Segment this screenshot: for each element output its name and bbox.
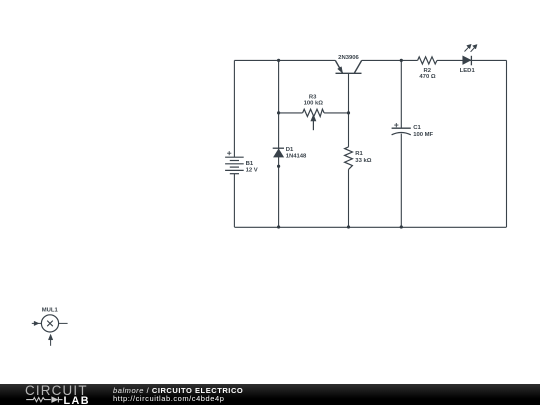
svg-text:R1: R1 <box>355 151 363 157</box>
svg-text:100 kΩ: 100 kΩ <box>304 100 324 106</box>
label 2N3906 <box>338 55 359 61</box>
svg-text:D1: D1 <box>286 147 294 153</box>
svg-text:470 Ω: 470 Ω <box>419 74 435 80</box>
svg-text:MUL1: MUL1 <box>42 308 59 314</box>
wire R1 top lead <box>348 113 350 147</box>
label R3 <box>309 95 317 101</box>
wire C1 bottom lead <box>400 134 402 227</box>
footer bar <box>0 384 540 405</box>
wire R3 right lead <box>324 112 348 114</box>
multiplier MUL1 <box>32 315 68 346</box>
wire Q1 base lead <box>348 73 350 113</box>
node dot D1 anode <box>277 165 280 168</box>
label 470 Ω <box>419 74 435 80</box>
label 33 kΩ <box>355 158 371 164</box>
CircuitLab logo <box>0 384 110 405</box>
transistor Q1 2N3906 <box>335 60 361 73</box>
resistor R1 <box>345 147 353 170</box>
capacitor C1 <box>392 123 411 135</box>
potentiometer R3 <box>303 109 325 130</box>
wire top-right (Q1 collector to R2) <box>362 59 418 61</box>
wire left vertical (top wire down to B1 +) <box>233 60 235 157</box>
label B1 <box>246 161 254 167</box>
svg-text:LED1: LED1 <box>460 68 476 74</box>
LED LED1 <box>463 44 477 65</box>
svg-text:2N3906: 2N3906 <box>338 55 359 61</box>
wire B1 - to bottom rail <box>233 174 235 227</box>
label 100 MF <box>413 132 433 138</box>
svg-text:33 kΩ: 33 kΩ <box>355 158 371 164</box>
node dot C1 top <box>400 59 403 62</box>
diode D1 1N4148 <box>273 148 284 157</box>
node dot R3 left <box>277 111 280 114</box>
node dot D1 bottom <box>277 225 280 228</box>
label D1 <box>286 147 294 153</box>
svg-text:12 V: 12 V <box>246 168 258 174</box>
label LED1 <box>460 68 476 74</box>
node dot D1 top <box>277 59 280 62</box>
wire R1 bottom lead <box>348 169 350 227</box>
wire right vertical (LED1 cathode down) <box>506 60 508 227</box>
label 100 kΩ <box>304 100 324 106</box>
svg-text:B1: B1 <box>246 161 254 167</box>
node dot R3 right / Q1 base <box>347 111 350 114</box>
svg-text:C1: C1 <box>413 125 421 131</box>
node dot C1 bottom <box>400 225 403 228</box>
label R1 <box>355 151 363 157</box>
svg-text:1N4148: 1N4148 <box>286 154 307 160</box>
wire bottom rail <box>234 226 506 228</box>
wire C1 top lead <box>400 60 402 128</box>
svg-text:100 MF: 100 MF <box>413 132 433 138</box>
wire R3 left lead <box>279 112 303 114</box>
svg-text:LAB: LAB <box>64 395 90 405</box>
label 1N4148 <box>286 154 307 160</box>
wire top-left (B1 top to Q1 emitter) <box>234 59 335 61</box>
label C1 <box>413 125 421 131</box>
label MUL1 <box>42 308 59 314</box>
wire D1 branch vertical <box>278 60 280 227</box>
label 12 V <box>246 168 258 174</box>
label R2 <box>424 68 432 74</box>
wire R2 to LED1 to right corner <box>437 59 507 61</box>
resistor R2 <box>418 57 437 64</box>
battery B1 <box>225 151 244 174</box>
node dot R1 bottom <box>347 225 350 228</box>
